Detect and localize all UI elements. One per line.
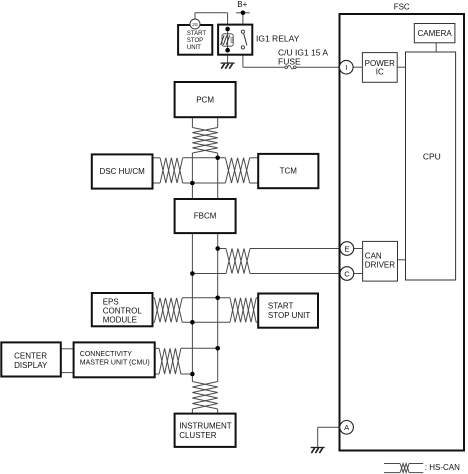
svg-text:CAN: CAN (365, 252, 382, 261)
svg-text:FUSE: FUSE (278, 56, 301, 66)
svg-text:IC: IC (376, 68, 384, 77)
svg-text:DRIVER: DRIVER (365, 261, 395, 270)
svg-text:IG1 RELAY: IG1 RELAY (256, 33, 300, 43)
svg-text:POWER: POWER (365, 59, 395, 68)
svg-text:CAMERA: CAMERA (417, 29, 452, 38)
svg-text:CONTROL: CONTROL (103, 307, 143, 316)
svg-text:STOP: STOP (187, 38, 203, 44)
svg-text:STOP UNIT: STOP UNIT (268, 311, 310, 320)
svg-text:A: A (344, 423, 349, 432)
svg-text:START: START (187, 31, 206, 37)
svg-text:C: C (344, 269, 350, 278)
svg-text:PCM: PCM (196, 96, 214, 105)
svg-text:CLUSTER: CLUSTER (179, 431, 217, 440)
svg-text:TCM: TCM (280, 167, 298, 176)
svg-text:E: E (344, 244, 349, 253)
svg-text:CPU: CPU (423, 152, 441, 162)
svg-text:CONNECTIVITY: CONNECTIVITY (80, 351, 132, 358)
svg-text:: HS-CAN: : HS-CAN (425, 463, 460, 472)
svg-text:DISPLAY: DISPLAY (14, 361, 48, 370)
svg-text:FSC: FSC (394, 2, 410, 11)
svg-text:INSTRUMENT: INSTRUMENT (179, 421, 232, 430)
svg-text:CENTER: CENTER (14, 351, 47, 360)
svg-text:UNIT: UNIT (187, 45, 201, 51)
svg-text:FBCM: FBCM (194, 212, 217, 221)
svg-text:MASTER UNIT (CMU): MASTER UNIT (CMU) (80, 359, 150, 366)
svg-text:DSC HU/CM: DSC HU/CM (100, 167, 146, 176)
svg-text:I: I (345, 63, 347, 72)
svg-text:EPS: EPS (103, 298, 119, 307)
svg-text:START: START (268, 301, 294, 310)
svg-text:B+: B+ (237, 0, 247, 9)
svg-text:MODULE: MODULE (103, 316, 137, 325)
svg-text:2S: 2S (192, 22, 198, 27)
